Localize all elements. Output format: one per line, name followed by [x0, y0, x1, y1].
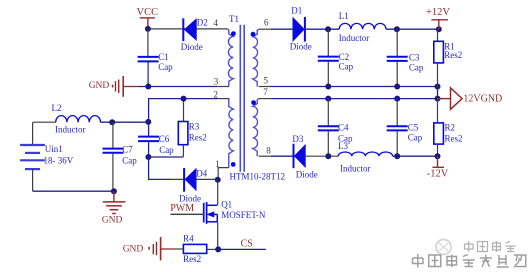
inductor L1 — [339, 23, 386, 29]
T1 winding 1 (pins 4-3) — [227, 29, 233, 87]
power port 12VGND — [438, 88, 503, 110]
diode D3 — [294, 144, 306, 169]
diode D4 — [184, 168, 196, 192]
svg-text:D2: D2 — [197, 18, 208, 28]
svg-text:Q1: Q1 — [221, 199, 232, 209]
resistor R2 — [434, 99, 444, 157]
node R1 bottom junction — [435, 84, 441, 90]
svg-text:PWM: PWM — [170, 203, 194, 214]
T1 winding 3 (pins 6-5) — [253, 29, 259, 86]
svg-text:Diode: Diode — [179, 193, 201, 203]
node R4/CS junction — [215, 246, 221, 252]
ground GND (earth, bottom) — [102, 191, 126, 225]
node R2 bottom junction — [435, 153, 441, 159]
power port VCC — [137, 7, 159, 29]
node VCC junction — [145, 26, 151, 32]
svg-text:2: 2 — [214, 89, 219, 99]
svg-text:R3: R3 — [189, 122, 200, 132]
node C5 top junction — [394, 96, 400, 102]
wire D4 rail gray part — [170, 178, 218, 180]
svg-text:C6: C6 — [159, 134, 170, 144]
svg-text:Diode: Diode — [296, 170, 318, 180]
transistor Q1 — [204, 202, 218, 224]
svg-text:6: 6 — [264, 17, 269, 27]
node C1/GND junction — [145, 84, 151, 90]
pin stub T1 pin 5 — [259, 86, 271, 88]
node R3 top junction — [181, 96, 187, 102]
wire battery bottom to GND — [33, 190, 114, 192]
pin stub T1 pin 1 — [218, 168, 229, 180]
power port -12V — [427, 156, 449, 180]
watermark logo — [436, 240, 451, 255]
svg-text:Cap: Cap — [409, 63, 424, 73]
watermark large text 中国电源产业网 — [413, 254, 526, 268]
wire junction down to D4 rail — [149, 157, 170, 179]
svg-text:Cap: Cap — [339, 61, 354, 71]
svg-text:GND: GND — [102, 215, 123, 225]
svg-text:Uin1: Uin1 — [45, 144, 63, 154]
svg-text:8: 8 — [266, 146, 271, 156]
wire D1 to L1 — [305, 28, 339, 30]
capacitor C6 — [138, 137, 159, 157]
svg-text:Cap: Cap — [158, 62, 173, 72]
diode D2 — [183, 18, 196, 41]
node C3 bottom junction — [394, 84, 400, 90]
svg-text:D4: D4 — [196, 169, 207, 179]
battery Uin1 — [20, 122, 45, 191]
pin stub T1 pin 7 — [259, 98, 271, 100]
svg-text:Cap: Cap — [159, 145, 174, 155]
wire L3 to -12V corner — [393, 155, 438, 157]
inductor L2 — [33, 116, 148, 123]
svg-text:Res2: Res2 — [445, 134, 463, 144]
svg-text:D3: D3 — [292, 134, 303, 144]
svg-text:R2: R2 — [445, 123, 456, 133]
svg-text:Inductor: Inductor — [55, 125, 86, 135]
wire Q1 drain lead — [217, 180, 219, 206]
svg-text:T1: T1 — [229, 14, 239, 24]
diode D1 — [293, 17, 305, 42]
resistor R1 — [434, 29, 444, 86]
inductor L3 — [338, 152, 392, 156]
svg-text:L2: L2 — [52, 103, 62, 113]
svg-text:3: 3 — [214, 77, 219, 87]
svg-text:Res2: Res2 — [183, 254, 201, 264]
svg-text:1: 1 — [215, 159, 220, 169]
svg-text:C1: C1 — [158, 52, 169, 62]
power port GND (left) — [89, 76, 138, 97]
wire PWM gate wire — [171, 213, 204, 215]
wire GND to R4 — [173, 248, 183, 250]
svg-text:D1: D1 — [291, 6, 302, 16]
wire CS net — [218, 248, 266, 250]
svg-text:C7: C7 — [122, 144, 133, 154]
capacitor C7 — [103, 122, 124, 191]
node C6/R3 junction — [145, 154, 151, 160]
svg-text:Res2: Res2 — [189, 133, 207, 143]
svg-text:Inductor: Inductor — [339, 33, 370, 43]
node C2 bottom junction — [325, 84, 331, 90]
svg-text:R4: R4 — [183, 233, 194, 243]
pin stub T1 pin 8 — [259, 155, 271, 157]
svg-text:5: 5 — [264, 75, 269, 85]
wire L1 to +12V corner — [386, 28, 439, 30]
pin stub T1 pin 2 — [218, 98, 230, 100]
wire D3 to L3 — [305, 155, 338, 157]
svg-text:C5: C5 — [408, 123, 419, 133]
wire pin8 to D3 — [271, 155, 293, 157]
node C5 bottom junction — [394, 153, 400, 159]
wire GND to T1 pin 3 — [137, 86, 217, 88]
node C4 top junction — [325, 96, 331, 102]
wire pin2 rail — [149, 98, 218, 100]
node D4/Q1 drain junction — [215, 177, 221, 183]
node C7 top junction — [109, 119, 115, 125]
node polarity dot winding 2 — [231, 162, 236, 167]
T1 core — [239, 25, 241, 172]
svg-text:C4: C4 — [338, 122, 349, 132]
wire rail pin5 net — [271, 86, 438, 88]
svg-text:12VGND: 12VGND — [463, 94, 502, 105]
pin stub T1 pin 3 — [217, 86, 229, 88]
svg-text:Cap: Cap — [408, 133, 423, 143]
node polarity dot winding 3 — [251, 32, 256, 37]
wire Q1 source lead — [217, 222, 219, 250]
node C3 top junction — [394, 26, 400, 32]
power port +12V — [426, 7, 450, 29]
wire pin6 to D1 — [271, 28, 293, 30]
node C4 bottom junction — [325, 153, 331, 159]
svg-text:L1: L1 — [339, 11, 349, 21]
svg-text:L3: L3 — [338, 141, 348, 151]
wire R3 bottom to junction — [148, 156, 183, 158]
node polarity dot winding 1 — [231, 31, 236, 36]
svg-text:Cap: Cap — [122, 155, 137, 165]
wire C1 branch — [147, 29, 149, 56]
node C2 top junction — [325, 26, 331, 32]
svg-text:Diode: Diode — [290, 42, 312, 52]
svg-text:+12V: +12V — [426, 7, 450, 18]
svg-text:CS: CS — [241, 238, 253, 249]
svg-text:18- 36V: 18- 36V — [44, 156, 74, 166]
capacitor C5 — [387, 99, 408, 157]
capacitor C4 — [318, 99, 339, 157]
svg-text:-12V: -12V — [427, 169, 449, 180]
node 12VGND junction — [435, 96, 441, 102]
capacitor C3 — [387, 29, 408, 86]
watermark small text 中国电源 — [465, 241, 516, 252]
svg-text:7: 7 — [263, 87, 268, 97]
wire VCC node to D2 and T1 pin 4 — [148, 28, 228, 30]
resistor R3 — [178, 99, 188, 157]
wire left C6 rail vertical — [148, 98, 150, 136]
svg-text:VCC: VCC — [137, 7, 159, 18]
svg-text:Inductor: Inductor — [340, 163, 371, 173]
svg-text:4: 4 — [214, 18, 219, 28]
wire tie rails x437.5 — [437, 87, 439, 99]
capacitor C2 — [318, 29, 339, 86]
node GND bottom junction — [111, 188, 117, 194]
T1 winding 4 (pins 7-8) — [253, 99, 259, 157]
resistor R4 — [183, 244, 218, 253]
node L2 junction — [145, 119, 151, 125]
svg-text:Res2: Res2 — [444, 50, 462, 60]
svg-text:Diode: Diode — [181, 42, 203, 52]
capacitor C1 — [138, 57, 159, 87]
pin stub T1 pin 6 — [259, 28, 271, 30]
svg-text:HTM10-28T12: HTM10-28T12 — [230, 172, 286, 182]
node +12V junction — [436, 26, 442, 32]
svg-text:C3: C3 — [409, 52, 420, 62]
svg-text:GND: GND — [89, 81, 110, 91]
T1 winding 2 (pins 2-1) — [229, 99, 233, 168]
svg-text:GND: GND — [123, 245, 144, 255]
power port GND (right) — [123, 237, 173, 260]
wire rail pin7 net — [271, 98, 438, 100]
node polarity dot winding 4 — [251, 100, 256, 105]
svg-text:MOSFET-N: MOSFET-N — [221, 210, 266, 220]
